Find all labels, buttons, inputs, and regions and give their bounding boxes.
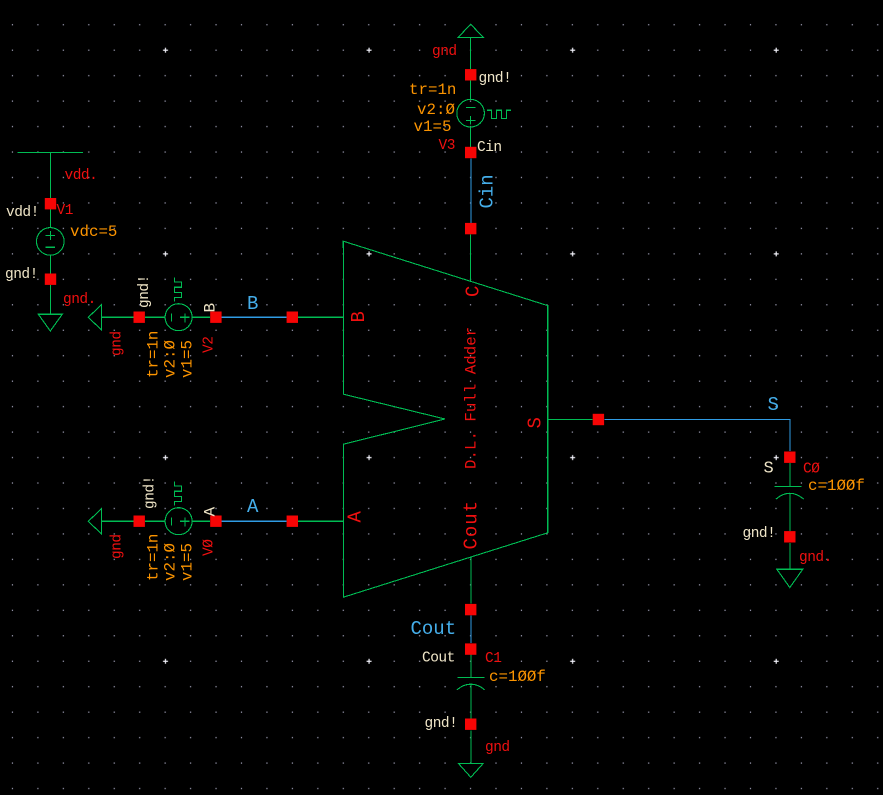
svg-text:v2:Ø: v2:Ø [417,101,455,119]
svg-text:gnd: gnd [432,44,457,60]
svg-text:gnd!: gnd! [5,267,38,283]
svg-text:gnd: gnd [110,534,126,559]
svg-text:V2: V2 [202,337,218,353]
svg-text:gnd!: gnd! [425,716,458,732]
svg-text:Cout: Cout [461,500,483,550]
svg-text:S: S [525,416,547,428]
svg-text:tr=1n: tr=1n [409,81,456,99]
svg-text:vdc=5: vdc=5 [70,223,117,241]
svg-text:S: S [764,460,774,479]
svg-text:Cin: Cin [477,140,502,156]
svg-text:gnd!: gnd! [143,476,159,509]
svg-text:V1: V1 [57,203,73,219]
svg-text:Cout: Cout [422,651,455,667]
svg-text:v1=5: v1=5 [414,118,452,136]
svg-text:VØ: VØ [202,539,218,556]
svg-text:C1: C1 [485,651,501,667]
svg-text:C: C [463,285,485,297]
svg-text:B: B [202,303,220,312]
svg-text:A: A [202,507,220,517]
svg-text:D.L. Full Adder: D.L. Full Adder [463,327,481,469]
svg-text:A: A [247,496,259,518]
svg-text:c=1ØØf: c=1ØØf [808,477,865,495]
svg-text:B: B [247,293,258,315]
svg-text:gnd!: gnd! [743,526,776,542]
svg-text:tr=1n: tr=1n [145,534,163,581]
svg-text:V3: V3 [439,138,455,154]
svg-text:v1=5: v1=5 [179,543,197,581]
svg-text:gnd: gnd [485,740,510,756]
svg-text:vdd.: vdd. [65,168,98,184]
svg-text:CØ: CØ [803,462,820,478]
svg-text:Cout: Cout [411,618,457,640]
svg-text:gnd.: gnd. [63,292,96,308]
svg-text:Cin: Cin [477,174,499,208]
svg-text:gnd.: gnd. [799,550,832,566]
svg-text:v2:Ø: v2:Ø [162,340,180,378]
svg-text:tr=1n: tr=1n [145,331,163,378]
svg-text:A: A [345,510,367,522]
svg-text:gnd!: gnd! [479,71,512,87]
svg-text:gnd!: gnd! [137,275,153,308]
svg-text:vdd!: vdd! [6,205,39,221]
svg-text:gnd: gnd [110,331,126,356]
svg-text:c=1ØØf: c=1ØØf [489,668,546,686]
svg-text:v1=5: v1=5 [179,340,197,378]
svg-text:S: S [768,394,779,416]
svg-text:B: B [348,310,370,322]
svg-text:v2:Ø: v2:Ø [162,543,180,581]
